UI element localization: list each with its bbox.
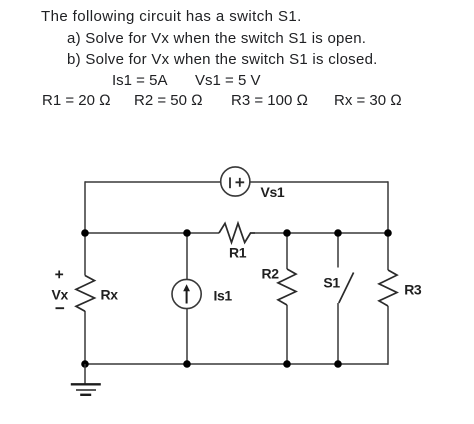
given value Is1 = 5A [112, 73, 167, 88]
wire left vertical upper [84, 181, 86, 275]
svg-text:Vs1: Vs1 [261, 184, 285, 200]
svg-text:Vx: Vx [52, 286, 69, 302]
wire S1 branch lower [337, 303, 339, 364]
node dot middle-right [384, 229, 392, 237]
wire top-right horizontal (from Vs1) [250, 181, 388, 183]
svg-text:R1: R1 [229, 245, 247, 261]
wire S1 branch upper [337, 233, 339, 268]
wire left vertical lower [84, 311, 86, 364]
given value R1 = 20 ohm [42, 93, 111, 108]
node dot middle R2 [283, 229, 291, 237]
given value R3 = 100 ohm [231, 93, 308, 108]
wire Is1 branch lower [186, 309, 188, 364]
svg-text:R2: R2 [262, 266, 280, 282]
resistor R3 zigzag [379, 270, 397, 306]
resistor R2 zigzag [278, 269, 296, 305]
problem statement line 3 [67, 52, 378, 67]
ground bar 2 [76, 389, 96, 391]
given value R2 = 50 ohm [134, 93, 203, 108]
svg-text:R3: R3 [404, 282, 422, 298]
wire Is1 branch upper [186, 233, 188, 279]
svg-text:S1: S1 [323, 274, 340, 290]
resistor R1 zigzag [219, 223, 255, 242]
wire top-left horizontal (to Vs1) [85, 181, 221, 183]
current source Is1 circle [172, 279, 201, 308]
wire right vertical lower [387, 306, 389, 365]
ground stub wire [84, 364, 86, 384]
given value Vs1 = 5 V [195, 73, 260, 88]
node dot middle Is1 [183, 229, 191, 237]
problem statement line 1 [41, 9, 302, 24]
wire R2 branch upper [286, 233, 288, 269]
wire R2 branch lower [286, 305, 288, 364]
ground bar 3 [80, 394, 91, 396]
polarity plus sign [55, 271, 63, 279]
voltage source VS1 minus bar [229, 177, 231, 188]
node dot bottom R2 [283, 360, 291, 368]
ground bar 1 [71, 383, 101, 385]
node dot bottom S1 [334, 360, 342, 368]
problem statement line 2 [67, 31, 366, 46]
switch S1 blade [339, 273, 354, 304]
polarity minus sign [56, 307, 65, 309]
wire middle-right horizontal [255, 232, 388, 234]
voltage source VS1 plus sign [236, 178, 245, 187]
node dot bottom-left [81, 360, 89, 368]
node dot middle S1 [334, 229, 342, 237]
current source Is1 arrow head [183, 284, 190, 291]
voltage source VS1 circle [221, 167, 250, 196]
svg-text:Is1: Is1 [214, 288, 233, 304]
wire right vertical upper [387, 181, 389, 270]
wire middle-left horizontal [85, 232, 219, 234]
given value Rx = 30 ohm [334, 93, 402, 108]
node dot bottom Is1 [183, 360, 191, 368]
current source Is1 arrow shaft [186, 289, 188, 304]
node dot middle-left [81, 229, 89, 237]
wire bottom horizontal [85, 363, 388, 365]
resistor Rx zigzag [76, 276, 95, 312]
svg-text:Rx: Rx [101, 286, 119, 302]
